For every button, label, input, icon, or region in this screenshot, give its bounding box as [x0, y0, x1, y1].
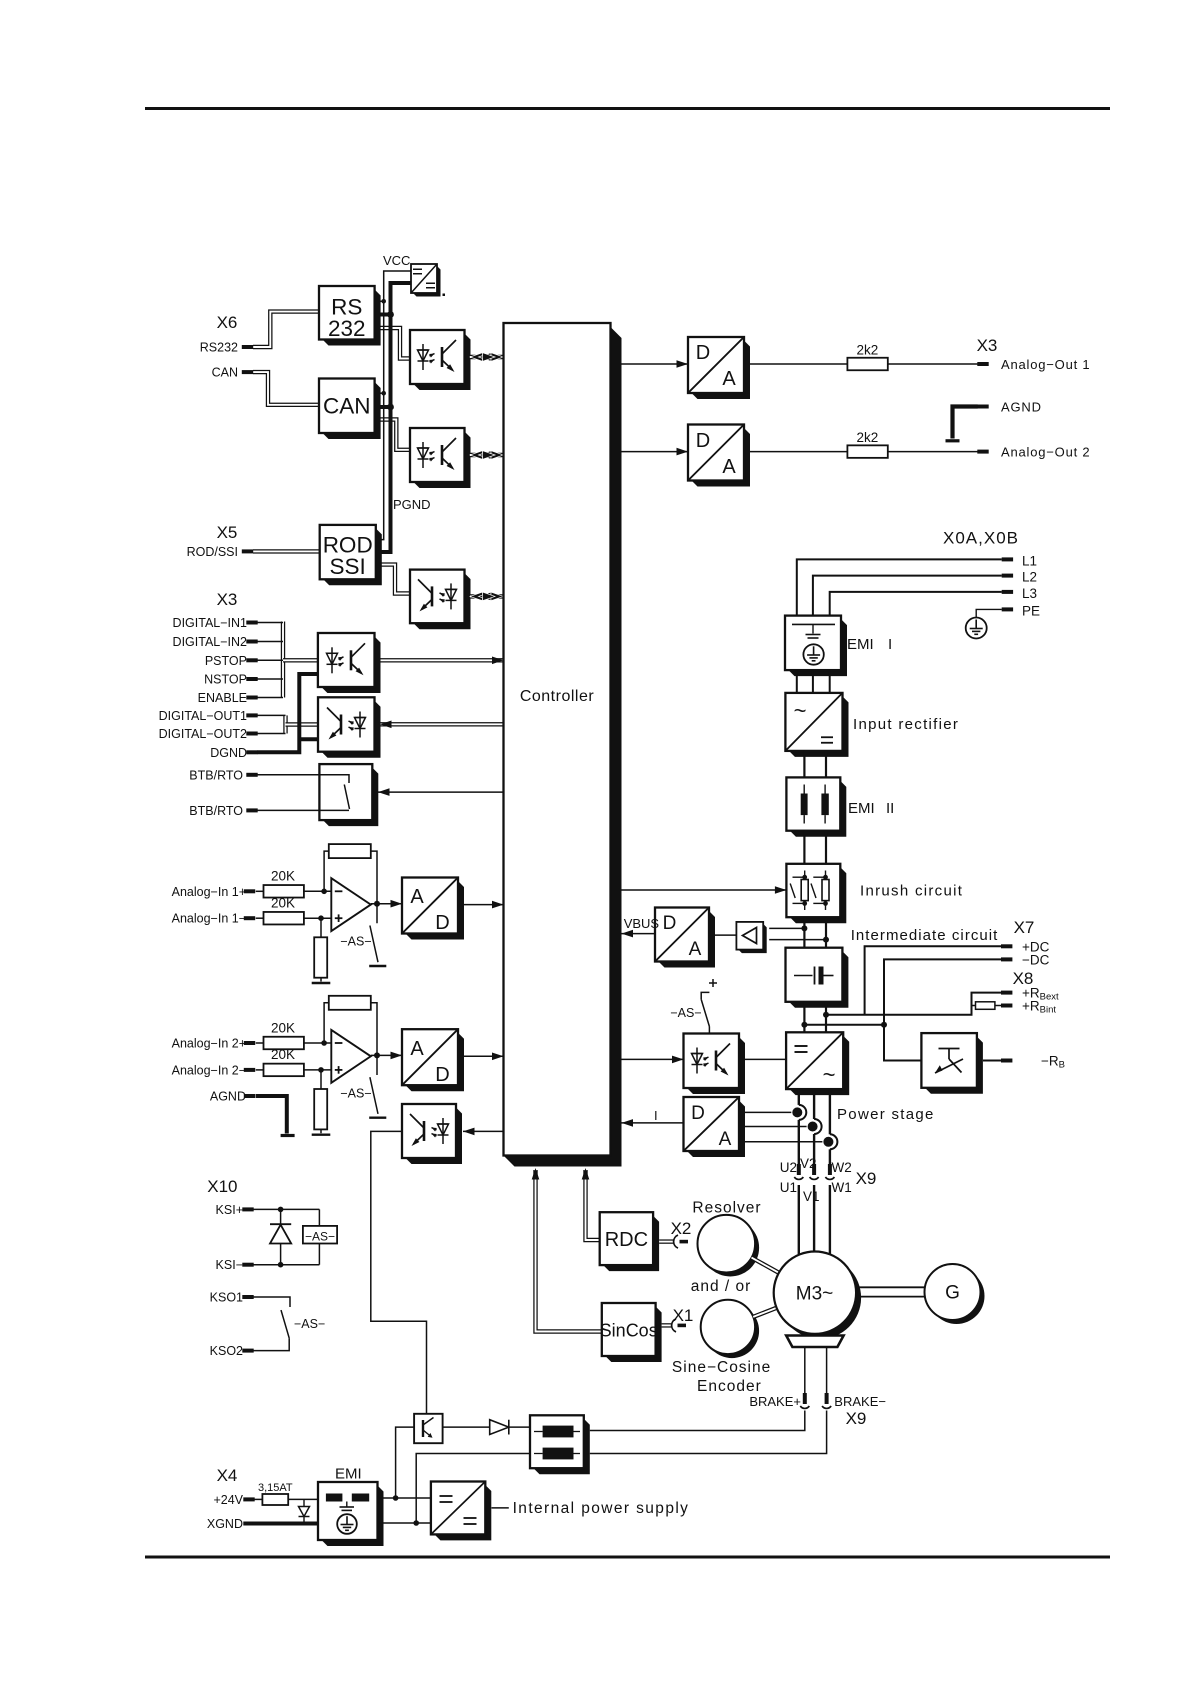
wire Analog-In 1+ lead: [256, 890, 264, 892]
svg-text:−DC: −DC: [1022, 952, 1050, 967]
wire relay to BRAKE+: [590, 1411, 805, 1431]
input resistor 20K (+) 2: [264, 1037, 304, 1050]
terminal BRAKE-: [825, 1393, 829, 1404]
EMI I filter block: [789, 619, 848, 676]
wire optocoupler V6 to brake driver Q1: [371, 1131, 427, 1413]
op-amp 1 output wire: [371, 903, 402, 905]
optocoupler V4 digital inputs: [321, 637, 380, 694]
svg-text:BRAKE+: BRAKE+: [749, 1394, 801, 1409]
svg-text:A: A: [719, 1129, 732, 1150]
svg-text:U2: U2: [780, 1160, 797, 1175]
wire power supply output: [492, 1507, 509, 1509]
current D/A converter: [687, 1101, 745, 1158]
fuse 3,15AT: [253, 1498, 263, 1500]
bottom border rule: [145, 1556, 1110, 1559]
svg-text:−AS−: −AS−: [340, 935, 371, 949]
wire +24V branch up to brake driver: [396, 1427, 415, 1498]
SinCos block: [605, 1307, 661, 1363]
resolver circle: [702, 1219, 760, 1277]
terminal DGND: [246, 750, 257, 754]
EMI II filter block: [790, 781, 846, 837]
brake driver transistor Q1: [414, 1414, 443, 1443]
terminal XGND: [243, 1522, 254, 1526]
op-amp U2: [331, 1030, 371, 1083]
junction dots VCC/PGND: [381, 299, 386, 304]
svg-text:D: D: [435, 912, 449, 934]
svg-text:DIGITAL−IN2: DIGITAL−IN2: [173, 635, 247, 649]
svg-text:X10: X10: [207, 1177, 237, 1196]
svg-text:Intermediate circuit: Intermediate circuit: [851, 927, 999, 944]
suppressor diode V7: [280, 1209, 282, 1264]
svg-text:20K: 20K: [271, 1020, 295, 1035]
svg-text:CAN: CAN: [323, 394, 371, 419]
svg-text:RDC: RDC: [605, 1229, 648, 1251]
DGND stub to optocoupler V5: [299, 737, 318, 741]
terminal AGND (X3): [977, 405, 988, 409]
wire ROD SSI box to optocoupler V3: [376, 565, 410, 594]
input resistor 20K (-) 2: [264, 1064, 304, 1077]
optocoupler V2: [414, 432, 471, 489]
svg-text:20K: 20K: [271, 869, 295, 884]
svg-text:EMI: EMI: [847, 636, 874, 653]
suppressor diode X4: [303, 1499, 305, 1523]
svg-text:V1: V1: [803, 1189, 820, 1204]
DC rails intermediate to power stage: [803, 1002, 805, 1033]
inrush circuit block: [790, 867, 846, 923]
wire X6 RS232 terminal to RS232 box: [253, 312, 319, 347]
ground tick shunt 2: [312, 1133, 331, 1135]
svg-text:3,15AT: 3,15AT: [258, 1482, 293, 1494]
wire chopper to -RB: [983, 1060, 1002, 1062]
wire enable stub: [257, 697, 283, 699]
svg-text:20K: 20K: [271, 1047, 295, 1062]
internal brake resistor RBint: [972, 1005, 976, 1007]
wire in1 stub: [257, 622, 283, 624]
VBUS sense lines: [769, 927, 804, 929]
wire RDC to controller: [586, 1170, 600, 1240]
arrow into A/D 1: [391, 900, 403, 908]
svg-text:V2: V2: [800, 1156, 817, 1171]
svg-text:M3~: M3~: [796, 1284, 834, 1305]
terminal +RBext: [1001, 991, 1012, 995]
terminal NSTOP: [246, 677, 257, 681]
svg-text:A: A: [689, 939, 702, 960]
-AS- switch op-amp 2: [370, 1077, 378, 1114]
VCC stub to CAN box: [375, 392, 384, 394]
wire BTB/RTO lower: [257, 809, 349, 811]
wire Q1 to diode: [443, 1426, 490, 1428]
terminal +RBint: [1001, 1004, 1012, 1008]
wire Analog-In 2+ lead: [256, 1042, 264, 1044]
svg-text:X7: X7: [1014, 918, 1035, 937]
wire controller to optocoupler V6: [463, 1130, 504, 1132]
shunt lead op-amp 2: [320, 1070, 322, 1089]
D/A converter 2: [692, 428, 751, 487]
svg-text:KSI+: KSI+: [216, 1203, 243, 1217]
svg-text:D: D: [696, 430, 710, 452]
svg-text:−AS−: −AS−: [305, 1229, 335, 1243]
wire digital input bus to optocoupler V4: [283, 658, 318, 662]
svg-text:EMI: EMI: [848, 800, 875, 817]
svg-text:+24V: +24V: [213, 1493, 243, 1507]
svg-text:KSI−: KSI−: [216, 1258, 243, 1272]
brake relay block K1: [534, 1419, 590, 1474]
motor phase terminals X9: [797, 1164, 801, 1175]
svg-text:G: G: [945, 1283, 960, 1304]
encoder circle: [705, 1304, 759, 1358]
svg-text:2k2: 2k2: [857, 430, 879, 445]
DC rails inrush to intermediate: [803, 917, 805, 948]
svg-text:ENABLE: ENABLE: [198, 691, 247, 705]
wire controller to D/A 2: [622, 451, 689, 453]
wire RDC to resolver connector: [659, 1239, 673, 1243]
arrows opto V4/V5: [492, 657, 504, 665]
wire RS232 box to optocoupler V1: [375, 328, 410, 359]
svg-text:X4: X4: [217, 1466, 238, 1485]
svg-text:Controller: Controller: [520, 688, 595, 705]
shunt resistor 1: [314, 937, 327, 977]
ground tick shunt 1: [312, 982, 331, 984]
A/D converter 2: [406, 1033, 465, 1092]
svg-text:and / or: and / or: [691, 1278, 752, 1295]
svg-text:DIGITAL−OUT2: DIGITAL−OUT2: [159, 727, 247, 741]
svg-text:VCC: VCC: [383, 253, 410, 268]
XGND thick wire: [253, 1522, 318, 1526]
svg-text:D: D: [435, 1064, 449, 1086]
net -DC wiring: [884, 959, 1002, 1024]
svg-text:PSTOP: PSTOP: [205, 654, 247, 668]
svg-text:BTB/RTO: BTB/RTO: [189, 768, 243, 782]
svg-text:X6: X6: [217, 313, 238, 332]
svg-text:X3: X3: [977, 336, 998, 355]
wires EMI I to rectifier: [796, 670, 798, 693]
wire SinCos to encoder connector: [662, 1323, 671, 1327]
terminal Analog-Out 2: [977, 450, 988, 454]
svg-text:W1: W1: [832, 1180, 852, 1195]
svg-text:PE: PE: [1022, 603, 1040, 618]
phase lines with current sensors: [798, 1089, 800, 1105]
svg-text:X9: X9: [856, 1169, 877, 1188]
bidirectional arrow V3-controller: [470, 594, 504, 598]
svg-text:232: 232: [328, 316, 366, 341]
terminal +DC: [1001, 944, 1012, 948]
gate optocoupler V9: [687, 1037, 745, 1094]
optocoupler V6 current-monitor: [406, 1108, 463, 1165]
internal power supply converter: [434, 1485, 491, 1540]
wire SinCos to controller: [536, 1170, 602, 1332]
svg-text:L1: L1: [1022, 553, 1037, 568]
net DGND thick wire: [257, 674, 318, 752]
svg-text:DIGITAL−IN1: DIGITAL−IN1: [173, 616, 247, 630]
wire digital output bus to optocoupler V5: [286, 722, 319, 726]
terminal KSO2: [242, 1349, 253, 1353]
svg-text:Power stage: Power stage: [837, 1106, 935, 1123]
arrow into A/D 2: [391, 1052, 403, 1060]
svg-text:DIGITAL−OUT1: DIGITAL−OUT1: [159, 709, 247, 723]
op-amp 2 output wire: [371, 1054, 402, 1056]
terminal L2: [1002, 574, 1013, 578]
feedback loop op-amp 1: [324, 851, 329, 891]
terminal DIGITAL−OUT2: [246, 732, 257, 736]
resistor 2k2 (1): [847, 358, 887, 371]
svg-text:L3: L3: [1022, 586, 1037, 601]
svg-text:VBUS: VBUS: [624, 916, 660, 931]
svg-text:XGND: XGND: [207, 1517, 243, 1531]
wire controller to gate optocoupler: [622, 1058, 684, 1060]
svg-text:X9: X9: [846, 1409, 867, 1428]
buffer amplifier: [738, 924, 766, 953]
svg-text:KSO1: KSO1: [210, 1291, 243, 1305]
svg-text:Analog−Out 2: Analog−Out 2: [1001, 445, 1090, 460]
terminal KSI-: [242, 1263, 253, 1267]
controller main block: [504, 327, 622, 1167]
BTB relay contact block: [323, 768, 378, 827]
intermediate circuit block: [789, 951, 848, 1008]
feedback loop op-amp 2: [324, 1003, 329, 1043]
wire resolver to motor: [752, 1258, 780, 1273]
optocoupler V1: [414, 334, 471, 391]
sense wires to current sensors: [745, 1111, 791, 1113]
wire X5 ROD/SSI terminal to ROD SSI box: [253, 549, 320, 553]
svg-text:DGND: DGND: [210, 746, 247, 760]
terminal KSO1: [242, 1295, 253, 1299]
DC rails EMI II to inrush: [803, 831, 805, 864]
svg-text:Internal power supply: Internal power supply: [513, 1500, 690, 1517]
terminal Analog-Out 1: [977, 362, 988, 366]
svg-text:−AS−: −AS−: [294, 1317, 325, 1331]
net AGND thick wire: [256, 1096, 287, 1134]
svg-text:PGND: PGND: [393, 497, 431, 512]
wire XGND branch up to brake relay: [416, 1454, 530, 1524]
svg-text:Analog−In 1−: Analog−In 1−: [172, 912, 246, 926]
D/A converter 1: [692, 341, 751, 400]
terminal Analog-In 1+: [244, 889, 255, 893]
wire KSI-: [254, 1264, 320, 1266]
power stage block: [790, 1036, 850, 1095]
svg-text:−AS−: −AS−: [670, 1006, 701, 1020]
svg-text:L2: L2: [1022, 570, 1037, 585]
wire -DC to brake chopper: [884, 1025, 921, 1061]
svg-text:X0A,X0B: X0A,X0B: [943, 529, 1019, 548]
wire out1 stub: [257, 714, 285, 716]
svg-text:Analog−In 2−: Analog−In 2−: [172, 1063, 246, 1077]
block RS 232: [323, 290, 381, 346]
shunt resistor 2: [314, 1089, 327, 1129]
svg-text:Inrush circuit: Inrush circuit: [860, 883, 963, 900]
input resistor 20K (-) 1: [264, 912, 304, 925]
digital output bus: [283, 715, 287, 733]
arrow into BTB relay: [378, 788, 390, 796]
svg-text:A: A: [722, 368, 736, 390]
input resistor 20K (+) 1: [264, 885, 304, 898]
svg-text:A: A: [722, 456, 736, 478]
motor feed lines to M3: [798, 1185, 800, 1254]
wire in2 stub: [257, 641, 283, 643]
svg-text:~: ~: [823, 1062, 836, 1087]
svg-text:W2: W2: [832, 1160, 852, 1175]
junction dots op-amp 1: [321, 889, 327, 895]
wire nstop stub: [257, 678, 283, 680]
svg-text:CAN: CAN: [212, 366, 238, 380]
svg-text:BRAKE−: BRAKE−: [834, 1394, 886, 1409]
wire BTB/RTO upper: [257, 774, 349, 776]
terminal AGND: [244, 1094, 255, 1098]
wire X6 CAN terminal to CAN box: [253, 372, 319, 405]
wire Analog-In 2- lead: [256, 1069, 264, 1071]
svg-text:Analog−Out 1: Analog−Out 1: [1001, 357, 1090, 372]
brake wires from motor: [804, 1347, 806, 1393]
PGND stub to CAN box: [375, 405, 391, 409]
wire controller to inrush: [622, 889, 787, 891]
-AS- switch op-amp 1: [370, 926, 378, 963]
diode V8: [490, 1420, 509, 1435]
PGND stub to RS232 box: [375, 313, 391, 317]
generator G circle: [929, 1268, 985, 1324]
-AS- switch contact KSO: [254, 1297, 291, 1307]
wire Analog-In 1- lead: [256, 917, 264, 919]
RDC block: [603, 1216, 659, 1271]
svg-text:AGND: AGND: [1001, 400, 1042, 415]
optocoupler V5 digital outputs: [322, 701, 381, 758]
resistor 2k2 (2): [847, 445, 887, 458]
net PGND thick line: [376, 283, 411, 552]
terminal Analog-In 1-: [244, 916, 255, 920]
svg-text:KSO2: KSO2: [210, 1344, 243, 1358]
svg-text:I: I: [654, 1108, 658, 1123]
D/A converter VBUS: [659, 911, 716, 968]
wire 2k2 to Analog-Out 1: [888, 363, 978, 365]
wire PE to earth: [976, 609, 1002, 617]
terminal PSTOP: [246, 658, 257, 662]
svg-text:ROD/SSI: ROD/SSI: [187, 545, 238, 559]
svg-text:Input rectifier: Input rectifier: [853, 716, 959, 733]
shunt lead op-amp 1: [320, 918, 322, 937]
svg-text:X2: X2: [671, 1219, 692, 1238]
net VCC thin line: [376, 271, 411, 540]
svg-text:2k2: 2k2: [857, 343, 879, 358]
wire CAN box to optocoupler V2: [375, 420, 410, 450]
svg-text:EMI: EMI: [335, 1466, 362, 1483]
net +DC wiring: [865, 946, 1002, 1014]
terminal BRAKE+: [803, 1393, 807, 1404]
svg-text:SSI: SSI: [330, 554, 366, 579]
terminal +24V: [243, 1497, 254, 1501]
-AS- coil box: [318, 1209, 320, 1226]
terminal ROD/SSI: [242, 549, 253, 553]
svg-text:X5: X5: [217, 523, 238, 542]
wire pstop stub: [257, 659, 283, 661]
wire A/D 1 to controller: [464, 904, 504, 906]
terminal L3: [1002, 590, 1013, 594]
wire D/A2 to 2k2: [750, 451, 847, 453]
svg-text:RS232: RS232: [200, 341, 238, 355]
terminal L1: [1002, 557, 1013, 561]
terminal -RB: [1001, 1059, 1012, 1063]
svg-text:Encoder: Encoder: [697, 1378, 762, 1395]
terminal CAN: [242, 370, 253, 374]
terminal Analog-In 2-: [244, 1068, 255, 1072]
svg-text:A: A: [410, 1038, 424, 1060]
wire KSI+: [254, 1208, 320, 1210]
wire L1: [797, 559, 1002, 615]
feedback resistor R2f: [329, 996, 371, 1010]
terminal Analog-In 2+: [244, 1041, 255, 1045]
block CAN: [323, 382, 381, 439]
svg-text:20K: 20K: [271, 896, 295, 911]
wire A/D 2 to controller: [464, 1055, 504, 1057]
brake chopper block: [925, 1037, 983, 1094]
wire 2k2 to Analog-Out 2: [888, 451, 978, 453]
op-amp U1: [331, 878, 371, 931]
terminal KSI+: [242, 1207, 253, 1211]
svg-text:Analog−In 2+: Analog−In 2+: [172, 1037, 246, 1051]
wire EMI to power supply lower: [378, 1522, 431, 1524]
DC/DC converter VCC: [413, 266, 441, 297]
AGND thick hook: [953, 407, 978, 439]
optocoupler V3: [414, 573, 471, 629]
bidirectional arrow V1-controller: [470, 355, 504, 359]
svg-text:Sine−Cosine: Sine−Cosine: [672, 1359, 771, 1376]
svg-text:D: D: [691, 1103, 705, 1124]
svg-text:Analog−In 1+: Analog−In 1+: [172, 885, 246, 899]
wire relay to BRAKE-: [590, 1411, 827, 1454]
EMI filter block X4: [322, 1486, 384, 1547]
terminal PE: [1002, 607, 1013, 611]
VCC stub to RS232 box: [375, 300, 384, 302]
wire current signal I to controller: [622, 1122, 684, 1124]
svg-text:I: I: [888, 636, 892, 653]
terminal BTB/RTO upper: [246, 773, 257, 777]
svg-text:BTB/RTO: BTB/RTO: [189, 804, 243, 818]
terminal DIGITAL−IN2: [246, 640, 257, 644]
terminal ENABLE: [246, 696, 257, 700]
svg-text:U1: U1: [780, 1180, 797, 1195]
wire L3: [830, 592, 1002, 616]
input rectifier block: [789, 696, 849, 757]
wire buffer to D/A VBUS: [715, 934, 736, 936]
svg-text:X3: X3: [217, 590, 238, 609]
DC rails rectifier to EMI II: [803, 751, 805, 778]
wire VBUS to controller: [622, 933, 656, 935]
wire optocoupler V4 to controller: [381, 658, 504, 662]
wire controller to optocoupler V5: [380, 722, 504, 726]
wire controller to D/A 1: [622, 363, 689, 365]
wire EMI to power supply upper: [378, 1497, 431, 1499]
top border rule: [145, 107, 1110, 110]
wire D/A1 to 2k2: [750, 363, 847, 365]
junction dots op-amp 2: [321, 1040, 327, 1046]
digital input bus: [281, 622, 285, 698]
svg-text:AGND: AGND: [210, 1090, 246, 1104]
terminal RS232: [242, 345, 253, 349]
wire controller to BTB relay: [378, 791, 504, 793]
wire out2 stub: [257, 733, 285, 735]
PE earth symbol: [966, 618, 987, 639]
wire encoder to motor: [753, 1308, 777, 1317]
svg-text:II: II: [886, 800, 894, 817]
feedback resistor R1f: [329, 844, 371, 858]
terminal DIGITAL−OUT1: [246, 713, 257, 717]
motor M3 circle: [779, 1257, 861, 1339]
bidirectional arrow V2-controller: [470, 453, 504, 457]
svg-text:−AS−: −AS−: [340, 1086, 371, 1100]
wire optocoupler to power stage: [745, 1058, 786, 1060]
svg-text:A: A: [410, 886, 424, 908]
wire L2: [813, 576, 1002, 616]
motor foot: [786, 1336, 843, 1348]
svg-text:X1: X1: [673, 1306, 694, 1325]
terminal -DC: [1001, 957, 1012, 961]
